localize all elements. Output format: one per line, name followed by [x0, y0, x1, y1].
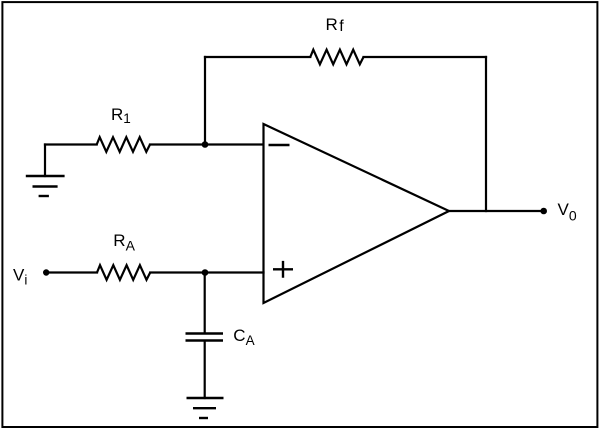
wire: op-amp output	[449, 210, 544, 212]
resistor R1	[97, 137, 150, 152]
ground (left, at R1 input)	[27, 145, 63, 197]
wire: Vi to RA	[46, 271, 97, 273]
wire: feedback right vertical to output	[485, 57, 487, 211]
wire: feedback left vertical	[204, 57, 206, 145]
wire: capacitor to ground	[204, 342, 206, 398]
svg-text:Rf: Rf	[326, 15, 345, 35]
op-amp U1	[264, 124, 450, 303]
ground (bottom, at CA)	[187, 398, 224, 418]
wire: feedback top left segment	[205, 56, 310, 58]
terminal V0	[540, 208, 547, 215]
wire: feedback top right segment	[364, 56, 487, 58]
resistor RA	[97, 265, 150, 280]
wire: R1 to op-amp inverting input	[150, 143, 264, 145]
capacitor CA	[186, 334, 224, 341]
wire: ground corner to R1	[45, 143, 97, 145]
wire: node B down to capacitor	[204, 273, 206, 333]
terminal Vi	[43, 269, 49, 275]
wire: RA to op-amp non-inverting input	[150, 271, 263, 273]
node B (non-inverting input junction)	[202, 269, 209, 276]
resistor Rf	[310, 50, 363, 65]
node A (inverting input junction)	[202, 141, 209, 148]
